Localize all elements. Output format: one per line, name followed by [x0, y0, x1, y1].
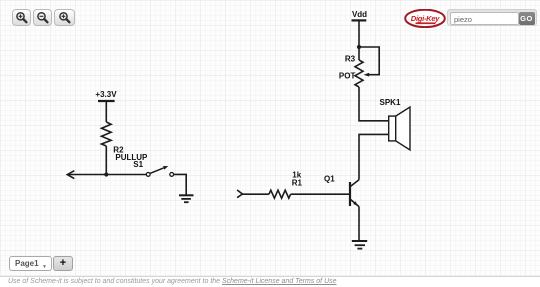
potentiometer R3 [355, 60, 363, 87]
transistor Q1 [350, 180, 359, 207]
junction [357, 45, 361, 49]
power +3.3V [95, 90, 117, 101]
svg-text:R3: R3 [345, 54, 356, 63]
svg-text:+3.3V: +3.3V [95, 90, 117, 99]
zoom in button [12, 9, 31, 26]
node arrow left [67, 171, 74, 179]
wire [105, 101, 107, 122]
wire [359, 134, 389, 179]
ground [179, 195, 194, 202]
svg-text:PULLUP: PULLUP [115, 153, 148, 162]
svg-text:SPK1: SPK1 [380, 98, 401, 107]
svg-text:Q1: Q1 [324, 175, 335, 184]
zoom fit button [54, 9, 75, 26]
resistor R1 [269, 190, 291, 198]
wire [358, 20, 360, 60]
power Vdd [352, 10, 368, 21]
ground [352, 241, 367, 249]
footer [0, 276, 540, 287]
wire [291, 193, 350, 195]
switch S1 [146, 166, 173, 176]
speaker SPK1 [389, 107, 410, 150]
zoom out button [33, 9, 52, 26]
svg-text:R1: R1 [292, 179, 303, 188]
resistor R2 [102, 122, 112, 146]
wire [105, 146, 107, 175]
wire [359, 87, 389, 121]
wire [358, 207, 360, 241]
search box [447, 9, 537, 26]
page tab [9, 256, 52, 271]
wiper arrow [364, 73, 370, 77]
svg-text:Digi-Key: Digi-Key [411, 14, 440, 23]
wire [242, 193, 269, 195]
svg-text:Vdd: Vdd [352, 10, 367, 19]
node arrow input [237, 190, 242, 198]
wire [174, 174, 187, 195]
wire wiper loop [359, 47, 379, 75]
svg-text:POT: POT [339, 71, 356, 80]
Digi-Key logo [404, 9, 446, 28]
svg-text:S1: S1 [133, 160, 143, 169]
junction [104, 172, 108, 176]
add page button [53, 256, 73, 271]
wire [68, 174, 147, 176]
